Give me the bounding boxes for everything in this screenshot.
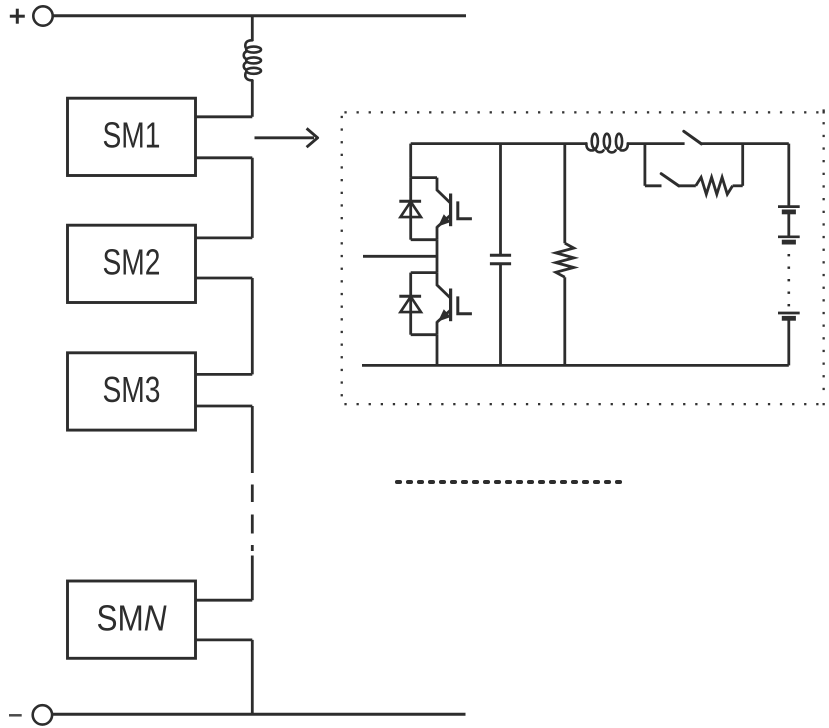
svg-text:SM3: SM3 [103,369,161,410]
svg-text:SMN: SMN [97,597,168,638]
svg-text:SM1: SM1 [103,115,161,156]
svg-text:SM2: SM2 [103,242,161,283]
